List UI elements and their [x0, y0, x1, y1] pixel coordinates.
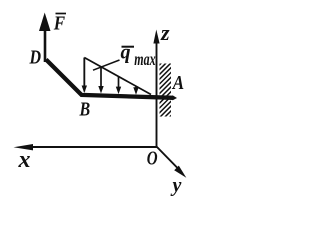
svg-text:z: z	[160, 20, 170, 45]
svg-text:D: D	[29, 46, 41, 68]
svg-text:q: q	[121, 42, 131, 64]
svg-text:max: max	[134, 50, 156, 70]
svg-text:O: O	[147, 146, 158, 169]
svg-text:F: F	[53, 12, 66, 35]
svg-text:B: B	[79, 98, 91, 120]
svg-text:y: y	[171, 175, 182, 197]
svg-text:A: A	[172, 72, 184, 95]
svg-text:x: x	[18, 147, 31, 173]
